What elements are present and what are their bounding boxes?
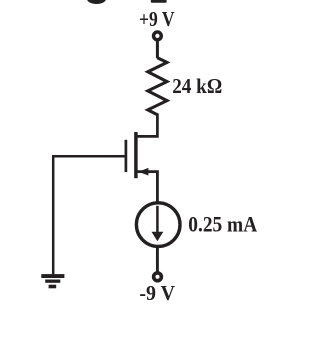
svg-text:24 kΩ: 24 kΩ <box>172 74 222 98</box>
svg-text:+9 V: +9 V <box>139 7 175 31</box>
svg-text:0.25 mA: 0.25 mA <box>188 211 257 236</box>
svg-text:-9 V: -9 V <box>139 281 175 305</box>
